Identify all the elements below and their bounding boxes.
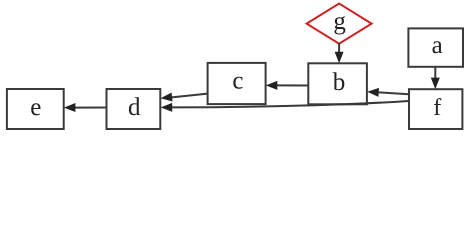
- svg-text:a: a: [432, 32, 443, 59]
- svg-text:e: e: [30, 94, 41, 121]
- edge d->e: [64, 103, 107, 112]
- node c: [208, 63, 266, 104]
- edge f->d: [161, 101, 409, 112]
- node e: [7, 89, 64, 129]
- svg-text:f: f: [433, 95, 441, 121]
- node d: [107, 89, 161, 129]
- edge b->c: [266, 81, 309, 90]
- node f: [409, 89, 462, 129]
- node g: [307, 4, 372, 44]
- svg-text:b: b: [333, 69, 346, 96]
- edge g->b: [335, 43, 344, 63]
- svg-text:c: c: [232, 67, 243, 94]
- node a: [408, 28, 463, 66]
- edge c->d: [161, 93, 208, 102]
- svg-text:g: g: [333, 8, 346, 35]
- edge f->b: [367, 88, 409, 97]
- svg-text:d: d: [128, 94, 141, 121]
- node b: [308, 63, 367, 104]
- edge a->f: [431, 67, 440, 89]
